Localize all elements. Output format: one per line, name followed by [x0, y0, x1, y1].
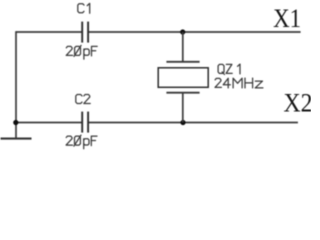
- crystal QZ1: [158, 32, 208, 123]
- label C2: [76, 95, 90, 104]
- crystal bottom electrode: [166, 92, 199, 94]
- label QZ1: [218, 64, 240, 74]
- svg-text:X2: X2: [284, 89, 312, 118]
- wire: bottom net right segment from C2 to X2 terminal end: [88, 122, 298, 124]
- node: junction dot top wire / crystal branch: [180, 29, 185, 34]
- label C1: [78, 3, 90, 13]
- wire: top net right segment from C1 to X1 terminal end: [88, 31, 301, 33]
- wire: left vertical bus from top corner down to ground: [15, 31, 17, 138]
- crystal body: [158, 68, 208, 88]
- wire: crystal top lead: [182, 32, 184, 62]
- node: junction dot left bus / bottom wire: [13, 120, 18, 125]
- ground: [1, 138, 32, 140]
- label 24MHz: [215, 78, 263, 88]
- label 20pF (C2 value): [66, 135, 97, 149]
- label 20pF (C1 value): [66, 45, 97, 59]
- crystal top electrode: [166, 61, 199, 63]
- wire: bottom net left segment from left bus to C2: [16, 122, 82, 124]
- svg-text:X1: X1: [273, 4, 301, 33]
- node: junction dot bottom wire / crystal branch: [180, 120, 185, 125]
- capacitor C2: [82, 112, 88, 133]
- wire: top net from corner to X1 terminal (left segment to C1): [16, 31, 82, 33]
- wire: crystal bottom lead: [182, 93, 184, 123]
- capacitor C1: [82, 22, 88, 43]
